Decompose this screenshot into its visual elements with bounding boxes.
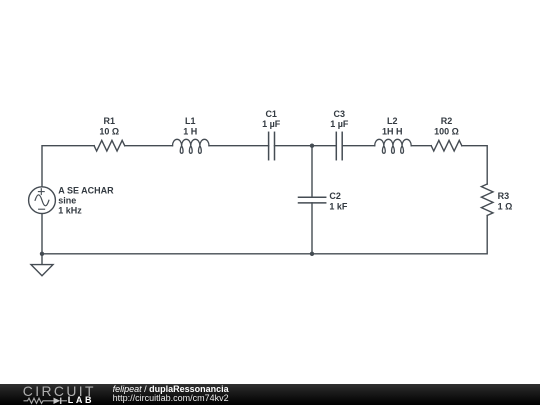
V1 plus sign [38, 189, 44, 195]
svg-text:R1: R1 [104, 116, 116, 126]
label R2 100 Ω [434, 116, 459, 137]
svg-text:1 µF: 1 µF [262, 119, 281, 129]
CircuitLab logo LAB [68, 396, 94, 404]
wire source bottom to ground node [41, 214, 43, 254]
node A junction dot [310, 144, 314, 148]
label C3 1 µF [330, 109, 349, 129]
wire ground stub [41, 254, 43, 265]
wire bottom node B to ground node [42, 253, 312, 255]
ground node junction dot [40, 252, 44, 256]
node B junction dot (C2 bottom) [310, 252, 314, 256]
svg-text:1 µF: 1 µF [330, 119, 349, 129]
svg-text:L1: L1 [185, 116, 196, 126]
label C1 1 µF [262, 109, 281, 129]
resistor R3 [481, 184, 493, 215]
wire node A to C3 [312, 145, 336, 147]
capacitor C1 [269, 132, 275, 159]
wire R1 to L1 [125, 145, 173, 147]
inductor L2 [375, 139, 412, 153]
wire L2 to R2 [411, 145, 431, 147]
capacitor C2 [299, 197, 326, 203]
svg-text:L2: L2 [387, 116, 398, 126]
svg-text:A SE ACHAR: A SE ACHAR [58, 185, 114, 195]
wire top-left corner to R1 [42, 146, 94, 187]
svg-text:C2: C2 [329, 191, 341, 201]
svg-text:C3: C3 [334, 109, 346, 119]
label R1 10 Ω [99, 116, 119, 137]
svg-text:1 kHz: 1 kHz [58, 206, 82, 216]
label V1: A SE ACHAR / sine / 1 kHz [58, 185, 114, 215]
ground symbol [31, 265, 53, 276]
capacitor C3 [336, 132, 342, 159]
svg-text:sine: sine [58, 195, 76, 205]
svg-text:R3: R3 [498, 191, 510, 201]
CircuitLab logo resistor-diode glyph [22, 396, 68, 405]
svg-text:100 Ω: 100 Ω [434, 127, 459, 137]
V1 minus sign [39, 208, 45, 210]
wire C1 to node A [275, 145, 313, 147]
label L2 1H H [382, 116, 403, 137]
wire node A down to C2 [311, 146, 313, 198]
wire C2 to node B [311, 203, 313, 254]
footer black bar [0, 384, 540, 405]
resistor R2 [431, 140, 462, 151]
svg-text:1 Ω: 1 Ω [498, 202, 513, 212]
svg-text:R2: R2 [441, 116, 453, 126]
footer text felipeat / duplaRessonancia [113, 385, 229, 394]
CircuitLab logo CIRCUIT [23, 385, 143, 398]
svg-text:1H H: 1H H [382, 127, 403, 137]
inductor L1 [172, 139, 209, 153]
wire R3 to bottom-right corner [312, 216, 487, 254]
wire C3 to L2 [342, 145, 375, 147]
wire R2 to top-right corner down to R3 [462, 146, 487, 184]
svg-text:1 kF: 1 kF [329, 202, 348, 212]
label C2 1 kF [329, 191, 348, 211]
svg-text:10 Ω: 10 Ω [99, 127, 119, 137]
label R3 1 Ω [498, 191, 513, 211]
resistor R1 [94, 140, 125, 151]
svg-text:C1: C1 [265, 109, 277, 119]
voltage source V1 sine [29, 187, 56, 214]
svg-text:1 H: 1 H [183, 127, 197, 137]
wire L1 to C1 [209, 145, 269, 147]
label L1 1 H [183, 116, 197, 137]
